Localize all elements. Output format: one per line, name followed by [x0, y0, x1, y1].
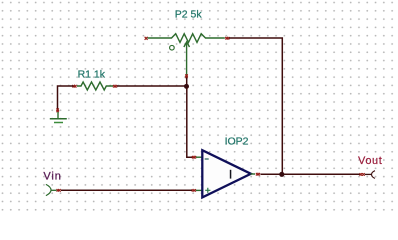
terminal xx R1 left	[72, 85, 76, 88]
node A junction dot (feedback node)	[184, 84, 189, 89]
output pin Vout	[372, 171, 376, 179]
terminal xx op-amp non-inverting input	[192, 189, 196, 192]
terminal xx R1 right	[113, 85, 117, 88]
input pin Vin	[46, 184, 51, 195]
svg-text:Vout: Vout	[358, 155, 382, 167]
wire wiper to junction	[186, 78, 188, 86]
op-amp U1 triangle	[202, 150, 251, 197]
potentiometer wiper arrow	[184, 42, 190, 76]
lead inverting input	[196, 156, 202, 158]
terminal xx op-amp inverting input	[192, 156, 196, 159]
terminal xx pot right	[225, 37, 229, 40]
ground	[50, 112, 67, 123]
lead non-inverting input	[196, 189, 202, 191]
node B junction dot (output node)	[279, 172, 284, 177]
potentiometer P2	[148, 34, 225, 43]
svg-text:P2 5k: P2 5k	[175, 9, 203, 21]
svg-text:R1 1k: R1 1k	[78, 68, 106, 80]
terminal xx Vin	[57, 189, 61, 192]
terminal x pot left	[145, 37, 148, 40]
wiper marker circle	[170, 45, 175, 50]
wire Vin to non-inverting input	[61, 189, 192, 191]
op-amp plus sign	[205, 188, 210, 193]
wire pot right to output node (top right corner)	[229, 38, 282, 173]
svg-text:Vin: Vin	[43, 170, 61, 182]
op-amp minus sign	[205, 158, 209, 160]
op-amp I label	[230, 170, 232, 179]
terminal xx Vout	[360, 173, 365, 176]
resistor R1	[77, 82, 113, 90]
terminal xx ground	[56, 108, 59, 112]
terminal xx op-amp output	[256, 173, 260, 176]
svg-text:IOP2: IOP2	[225, 136, 249, 148]
terminal xx wiper bottom	[185, 74, 188, 78]
wire junction to Vout	[284, 173, 360, 175]
wire output to junction	[261, 173, 282, 175]
lead Vin pin	[51, 189, 56, 191]
wire junction down to inverting input	[187, 87, 193, 157]
wire R1 left to ground	[58, 86, 74, 109]
lead op-amp output	[251, 173, 256, 175]
wire R1 right to junction	[117, 85, 185, 87]
lead Vout pin	[365, 173, 372, 175]
